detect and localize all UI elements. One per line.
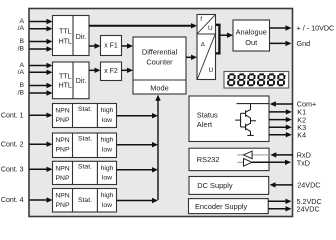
svg-text:Stat.: Stat. (78, 197, 92, 204)
svg-text:NPN: NPN (55, 137, 69, 144)
display digit 8 #6 (278, 74, 285, 85)
block Analogue Out (233, 20, 270, 51)
wire input B arrow into TTL/HTL 2 (30, 85, 49, 87)
svg-text:HTL: HTL (59, 39, 72, 46)
wire input A arrow into TTL/HTL 1 (30, 21, 49, 23)
divider diagonal delta/U (197, 34, 215, 79)
svg-text:low: low (102, 175, 112, 182)
svg-text:K4: K4 (297, 130, 306, 139)
svg-text:Stat.: Stat. (78, 164, 92, 171)
block Differential Counter with Mode section (133, 37, 186, 94)
svg-text:x F2: x F2 (104, 68, 118, 75)
svg-text:RS232: RS232 (197, 155, 220, 164)
wire Dir.1 output to x F1 (89, 45, 96, 47)
svg-text:NPN: NPN (55, 165, 69, 172)
svg-text:PNP: PNP (56, 175, 70, 182)
wire relay output K3 (269, 126, 287, 128)
display 7-segment readout 888888 (224, 72, 289, 89)
wire bus arrow up into Mode (155, 95, 160, 101)
node output selector bracket of converter (216, 25, 219, 54)
svg-text:24VDC: 24VDC (297, 204, 320, 213)
svg-text:TTL: TTL (59, 74, 72, 81)
svg-text:Stat.: Stat. (78, 106, 92, 113)
svg-text:Cont. 2: Cont. 2 (1, 141, 24, 148)
wire control 3 output to bus (117, 169, 154, 171)
svg-text:TxD: TxD (297, 158, 310, 167)
display digit 8 #3 (248, 74, 255, 85)
svg-text:high: high (101, 165, 114, 172)
block TTL/HTL input stage 2 with Dir. section (53, 62, 90, 99)
wire RS232 receive line (gray) (237, 154, 269, 156)
divider diagonal f/U (197, 15, 215, 34)
block control input 4: NPN/PNP | Stat. | high/low (53, 189, 117, 213)
svg-text:low: low (102, 117, 112, 124)
wire Cont. 1 input arrow (30, 114, 49, 116)
wire x F2 output to Differential Counter (122, 69, 129, 71)
block multiplier x F2 (101, 62, 122, 81)
wire TTL/HTL 1 output to f/U converter (89, 25, 193, 27)
block RS232 interface (189, 148, 269, 170)
svg-text:24VDC: 24VDC (297, 181, 320, 190)
svg-text:/B: /B (18, 46, 25, 53)
buffer receiver triangle (244, 151, 253, 159)
display digit 8 #2 (238, 74, 245, 85)
svg-text:TTL: TTL (59, 29, 72, 36)
svg-text:NPN: NPN (55, 193, 69, 200)
svg-text:high: high (101, 137, 114, 144)
wire input /B arrow into TTL/HTL 1 (30, 48, 49, 50)
svg-text:Encoder Supply: Encoder Supply (195, 202, 247, 211)
wire relay output K4 (269, 134, 287, 136)
wire Cont. 2 input arrow (30, 143, 49, 145)
svg-text:Δ: Δ (201, 42, 205, 48)
svg-text:Gnd: Gnd (297, 39, 311, 48)
wire control 2 output to bus (117, 144, 154, 146)
svg-text:U: U (208, 67, 213, 74)
wire analogue output +/-10VDC (270, 27, 288, 29)
block control input 3: NPN/PNP | Stat. | high/low (53, 161, 117, 184)
wire input /A arrow into TTL/HTL 1 (30, 28, 49, 30)
display digit 8 #4 (258, 74, 265, 85)
wire encoder supply 24VDC output (268, 208, 287, 210)
icon transistor output stage in Status Alert (235, 104, 269, 136)
svg-text:Status: Status (197, 110, 218, 119)
svg-text:Cont. 1: Cont. 1 (1, 112, 24, 119)
svg-text:A: A (19, 18, 24, 25)
svg-text:/A: /A (18, 69, 25, 76)
svg-text:PNP: PNP (56, 147, 70, 154)
wire input /A arrow into TTL/HTL 2 (30, 71, 49, 73)
svg-text:Dir.: Dir. (76, 78, 87, 85)
wire analogue output Gnd (270, 42, 288, 44)
wire converter output to Analogue Out (221, 34, 229, 36)
svg-text:/A: /A (18, 25, 25, 32)
svg-text:Mode: Mode (150, 84, 169, 93)
svg-text:high: high (101, 192, 114, 199)
svg-text:Analogue: Analogue (236, 28, 267, 37)
wire RS232 transmit feed (gray) (237, 161, 243, 163)
display digit 8 #5 (268, 74, 275, 85)
svg-text:Cont. 4: Cont. 4 (1, 197, 24, 204)
block Encoder Supply (189, 199, 269, 214)
svg-text:NPN: NPN (55, 108, 69, 115)
wire input /B arrow into TTL/HTL 2 (30, 92, 49, 94)
wire 24VDC supply input arrow (274, 184, 293, 186)
svg-text:high: high (101, 107, 114, 114)
svg-text:/B: /B (18, 90, 25, 97)
block TTL/HTL input stage 1 with Dir. section (53, 16, 90, 56)
block f/U and delta/U converter (197, 15, 216, 80)
wire input A arrow into TTL/HTL 2 (30, 65, 49, 67)
svg-text:B: B (19, 82, 24, 89)
wire Dir.2 output to x F2 (89, 69, 96, 71)
wire control 1 output to bus (117, 115, 154, 117)
svg-text:+ / - 10VDC: + / - 10VDC (297, 24, 335, 33)
block control input 1: NPN/PNP | Stat. | high/low (53, 104, 117, 128)
block multiplier x F1 (101, 36, 122, 56)
block DC Supply (189, 177, 269, 195)
wire encoder supply 5.2VDC output (268, 200, 287, 202)
display digit 8 #1 (228, 74, 235, 85)
svg-text:low: low (102, 146, 112, 153)
wire Differential Counter output to delta/U converter (186, 56, 193, 58)
svg-text:Alert: Alert (197, 120, 212, 129)
svg-text:Stat.: Stat. (78, 135, 92, 142)
svg-text:Dir.: Dir. (76, 34, 87, 41)
wire relay output K1 (269, 111, 287, 113)
wire relay output K2 (269, 119, 287, 121)
svg-text:Out: Out (245, 38, 257, 47)
svg-text:PNP: PNP (56, 117, 70, 124)
wire vertical control bus to Mode (157, 100, 159, 200)
svg-text:PNP: PNP (56, 202, 70, 209)
wire Com+ input arrow (274, 103, 292, 105)
svg-text:Differential: Differential (142, 48, 178, 57)
svg-text:U: U (208, 25, 213, 32)
svg-text:Counter: Counter (146, 58, 173, 67)
svg-text:DC Supply: DC Supply (197, 181, 233, 190)
svg-text:HTL: HTL (59, 83, 72, 90)
svg-text:low: low (102, 202, 112, 209)
svg-text:f: f (200, 16, 202, 23)
outer device enclosure box (29, 9, 293, 217)
wire Cont. 3 input arrow (30, 168, 49, 170)
wire input B arrow into TTL/HTL 1 (30, 41, 49, 43)
svg-text:Cont. 3: Cont. 3 (1, 166, 24, 173)
svg-text:x F1: x F1 (104, 43, 118, 50)
wire control 4 output to bus (117, 200, 154, 202)
buffer driver triangle (244, 159, 253, 167)
wire TxD output arrow (252, 161, 286, 163)
svg-text:B: B (19, 38, 24, 45)
block control input 2: NPN/PNP | Stat. | high/low (53, 133, 117, 158)
block Status Alert (189, 96, 269, 142)
wire x F1 output to Differential Counter (122, 45, 129, 47)
wire Cont. 4 input arrow (30, 199, 49, 201)
wire RxD input arrow (275, 154, 293, 156)
